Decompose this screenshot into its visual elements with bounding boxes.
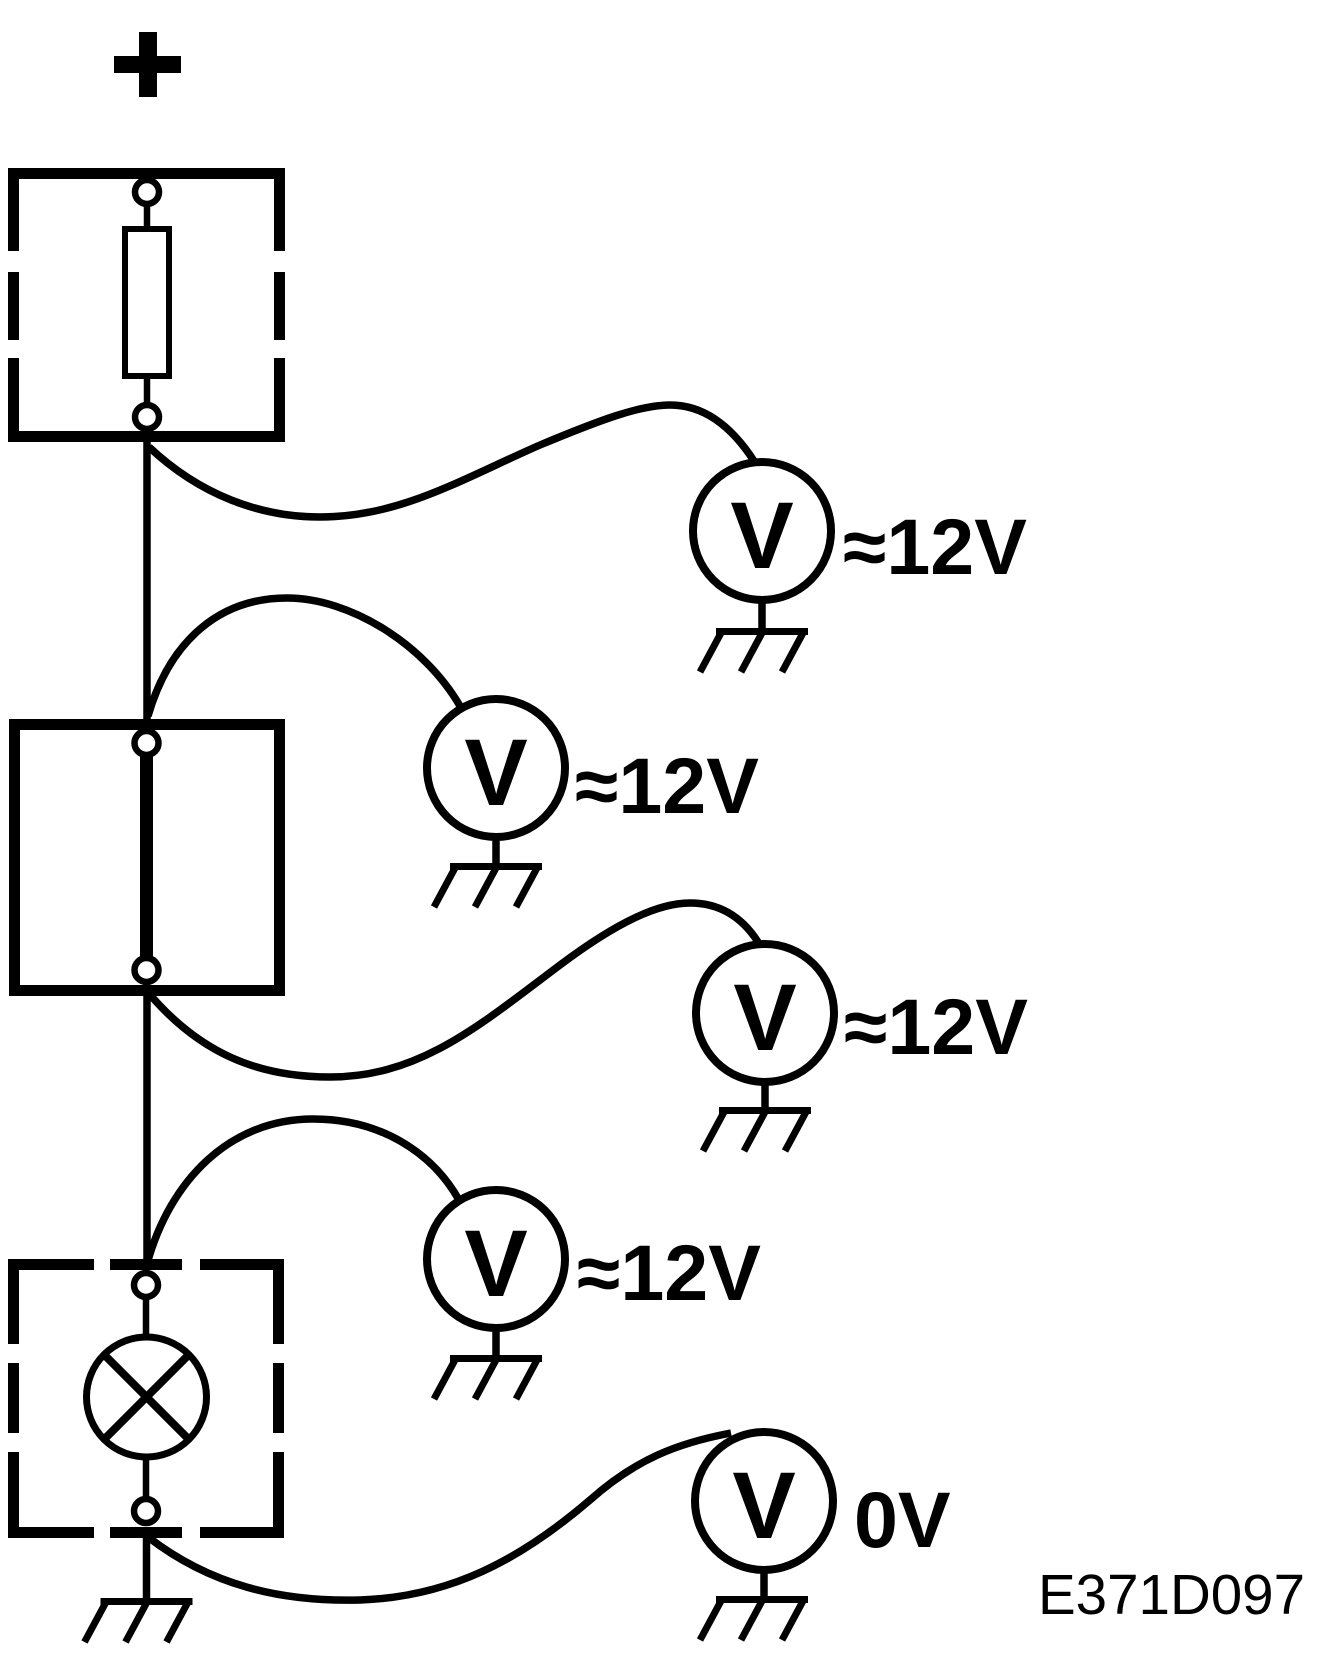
terminal pin (fuse box bottom) bbox=[135, 405, 159, 429]
wire (V5 to ground) bbox=[760, 1570, 768, 1598]
ground (V4) bbox=[434, 1359, 542, 1400]
terminal pin (fuse box top) bbox=[135, 180, 159, 204]
wire (lamp to pin) bbox=[143, 1455, 150, 1499]
lamp E1 bbox=[87, 1337, 207, 1457]
ground (V1) bbox=[700, 632, 808, 673]
svg-text:V: V bbox=[733, 965, 796, 1071]
battery positive terminal + bbox=[114, 32, 181, 97]
wire (node to voltmeter V5) bbox=[148, 1433, 731, 1600]
terminal pin (lamp box bottom) bbox=[134, 1499, 158, 1523]
wire (V1 to ground) bbox=[758, 600, 766, 630]
ground (V3) bbox=[703, 1111, 811, 1152]
ground (V2) bbox=[434, 867, 542, 908]
wire (V3 to ground) bbox=[761, 1082, 769, 1109]
svg-text:V: V bbox=[464, 720, 527, 826]
svg-text:0V: 0V bbox=[854, 1475, 951, 1564]
wire (node to voltmeter V2) bbox=[148, 598, 460, 716]
svg-text:≈12V: ≈12V bbox=[575, 741, 759, 830]
voltmeter V4 bbox=[427, 1190, 565, 1328]
voltmeter V2 bbox=[427, 699, 565, 837]
wire (V4 to ground) bbox=[492, 1328, 500, 1357]
wire (node to voltmeter V4) bbox=[147, 1119, 459, 1264]
wire (pin to fuse) bbox=[144, 205, 151, 232]
fuse box (dashed component box) bbox=[8, 168, 285, 442]
terminal pin (switch box bottom) bbox=[135, 958, 159, 982]
wire (V2 to ground) bbox=[492, 837, 500, 865]
voltmeter V1 bbox=[693, 462, 831, 600]
wire (switch box to lamp box) bbox=[143, 985, 151, 1270]
closed switch contact bar bbox=[140, 753, 153, 960]
svg-text:≈12V: ≈12V bbox=[577, 1228, 761, 1317]
svg-text:V: V bbox=[464, 1211, 527, 1317]
svg-text:≈12V: ≈12V bbox=[844, 982, 1028, 1071]
wire (fuse to pin) bbox=[144, 376, 151, 404]
voltmeter V5 bbox=[695, 1432, 833, 1570]
switch box (solid component box) bbox=[15, 725, 280, 991]
lamp box (dashed component box) bbox=[8, 1259, 284, 1538]
voltmeter V3 bbox=[696, 944, 834, 1082]
circuit ground bbox=[85, 1602, 193, 1643]
ground (V5) bbox=[700, 1600, 808, 1641]
wire (pin to lamp) bbox=[143, 1297, 150, 1340]
svg-text:≈12V: ≈12V bbox=[843, 502, 1027, 591]
terminal pin (switch box top) bbox=[135, 731, 159, 755]
svg-text:E371D097: E371D097 bbox=[1038, 1563, 1305, 1626]
svg-text:V: V bbox=[730, 483, 793, 589]
wire (fuse box to switch box) bbox=[143, 436, 151, 730]
terminal pin (lamp box top) bbox=[134, 1273, 158, 1297]
wire (node to voltmeter V1) bbox=[149, 405, 754, 517]
wire (lamp box to circuit ground) bbox=[143, 1527, 151, 1600]
wire (node to voltmeter V3) bbox=[146, 903, 758, 1077]
svg-text:V: V bbox=[732, 1453, 795, 1559]
fuse F1 bbox=[125, 229, 169, 376]
